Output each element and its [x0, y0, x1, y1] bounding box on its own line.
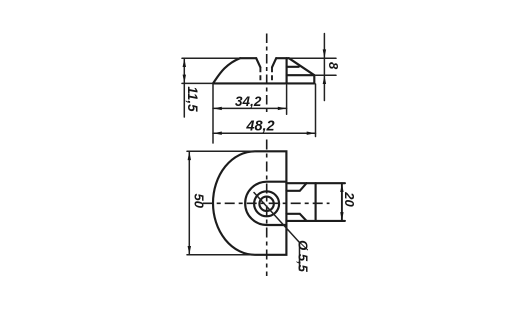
dim 34.2 extension right — [286, 85, 288, 114]
arrow dim 34.2 left — [213, 107, 222, 110]
hole circle — [259, 197, 273, 211]
leader line diameter — [254, 193, 300, 271]
centerline front view vertical — [266, 140, 268, 277]
centerline top view — [266, 34, 268, 115]
dim 48.2 line — [213, 132, 316, 134]
dim 50 line — [188, 151, 190, 255]
dim 50 extension top — [187, 150, 255, 152]
dim 8 extension top — [289, 57, 336, 59]
top view base line — [213, 82, 314, 84]
dim 50 extension bottom — [187, 254, 255, 256]
countersink right slope — [272, 58, 276, 67]
arrow dim 20 down — [340, 212, 343, 221]
arrow dim 48.2 right — [307, 132, 316, 135]
tab inner bottom + chamfer (front view) — [286, 214, 306, 221]
arrow dim 50 down — [188, 246, 191, 255]
svg-text:50: 50 — [191, 193, 206, 208]
hidden hole line left (dashed) — [259, 67, 261, 83]
dim 11.5 line — [183, 58, 185, 117]
top view dome curve — [213, 58, 240, 83]
svg-text:Ø 5,5: Ø 5,5 — [296, 240, 311, 273]
tab inner horizontal lower (top view) — [287, 74, 315, 76]
dim 11.5 extension top — [182, 57, 240, 59]
top view top edge left segment — [240, 57, 256, 59]
dim 34.2 extension left — [212, 85, 214, 144]
tab right edge (top view) — [313, 75, 315, 83]
arrow dim 20 up — [340, 183, 343, 192]
dim 8 extension bottom — [314, 74, 336, 76]
svg-text:20: 20 — [342, 191, 357, 207]
dim 11.5 extension bottom — [182, 82, 213, 84]
tab slope (top view) — [289, 58, 314, 75]
arrow dim 50 up — [188, 151, 191, 160]
hidden hole line right (dashed) — [271, 67, 273, 83]
svg-text:48,2: 48,2 — [245, 119, 274, 135]
tab outer bottom (front view) — [286, 220, 345, 222]
tab step vertical (front view) — [315, 183, 317, 221]
arrow dim 8 up — [323, 75, 326, 84]
countersink left slope — [256, 58, 260, 67]
tab outer top (front view) — [286, 182, 345, 184]
svg-text:34,2: 34,2 — [235, 94, 262, 109]
svg-text:11,5: 11,5 — [185, 86, 200, 112]
svg-text:8: 8 — [326, 62, 341, 70]
arrow dim 48.2 left — [213, 132, 222, 135]
top view top edge right segment — [276, 57, 289, 59]
dim 20 line / tab end edge — [341, 183, 343, 221]
centerline front view horizontal — [203, 202, 330, 204]
body right edge (top view) — [286, 58, 288, 83]
tab inner top + chamfer (front view) — [286, 183, 306, 191]
dim 34.2 line — [213, 107, 287, 109]
middle circle — [254, 191, 279, 216]
boss arc (front view) — [245, 182, 286, 225]
arrow dim 11.5 down — [183, 75, 186, 84]
dim 8 line — [323, 34, 325, 101]
dim 48.2 extension right — [315, 84, 317, 137]
arrow dim 8 down — [323, 49, 326, 58]
arrow dim 11.5 up — [183, 58, 186, 67]
front view body outline — [213, 151, 286, 255]
tab inner horizontal upper (top view) — [287, 66, 299, 68]
arrow dim 34.2 right — [278, 107, 287, 110]
